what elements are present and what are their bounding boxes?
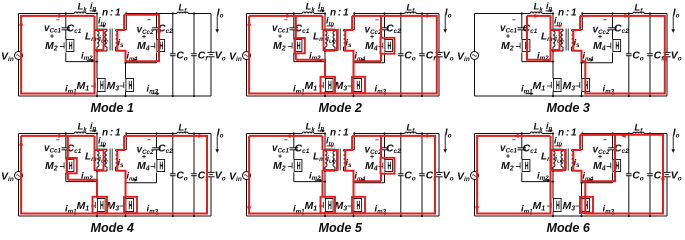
svg-text:Mode 2: Mode 2 xyxy=(319,101,362,115)
svg-text:Mode 1: Mode 1 xyxy=(91,101,134,115)
svg-text:Mode 3: Mode 3 xyxy=(547,101,590,115)
svg-text:Mode 6: Mode 6 xyxy=(547,221,591,233)
svg-text:Mode 5: Mode 5 xyxy=(319,221,363,233)
svg-text:Mode 4: Mode 4 xyxy=(91,221,134,233)
